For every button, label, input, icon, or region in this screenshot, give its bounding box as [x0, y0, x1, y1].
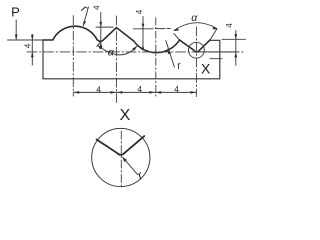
svg-text:P: P [11, 5, 20, 20]
svg-text:4: 4 [137, 84, 142, 94]
svg-text:4: 4 [92, 5, 102, 10]
svg-text:4: 4 [134, 9, 144, 14]
svg-text:4: 4 [174, 84, 179, 94]
svg-text:4: 4 [224, 23, 234, 28]
svg-text:4: 4 [23, 43, 33, 48]
svg-text:α: α [191, 12, 198, 24]
svg-text:r: r [79, 3, 90, 16]
svg-text:α: α [108, 46, 115, 58]
svg-text:X: X [201, 60, 211, 76]
svg-text:X: X [120, 107, 131, 124]
svg-text:4: 4 [96, 85, 101, 95]
svg-text:r: r [176, 59, 183, 72]
